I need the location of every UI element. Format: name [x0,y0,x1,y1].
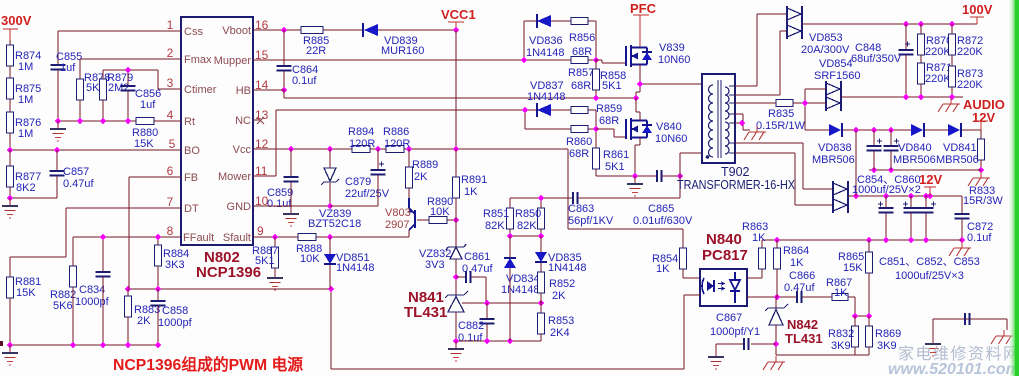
diode VD835 [540,236,542,252]
svg-text:15K: 15K [843,262,863,274]
wire pin8 FFault [73,237,181,266]
svg-text:1: 1 [167,18,174,32]
wire pin11 Mower gate drive [253,110,596,176]
svg-text:1N4148: 1N4148 [501,284,540,296]
svg-text:1uf: 1uf [140,99,156,111]
svg-text:220K: 220K [957,46,983,58]
shunt reg N841 TL431 [445,291,468,298]
svg-text:C857: C857 [63,166,89,178]
svg-text:C863: C863 [568,203,594,215]
svg-text:8: 8 [167,224,174,238]
svg-text:V840: V840 [656,121,682,133]
svg-text:R853: R853 [548,315,574,327]
wire VCC1 vertical [455,30,457,149]
svg-text:R852: R852 [549,278,575,290]
svg-text:2M2: 2M2 [108,82,129,94]
capacitor C853 [925,196,927,208]
svg-text:C858: C858 [162,305,188,317]
svg-text:0.47uf: 0.47uf [784,282,816,294]
svg-text:12V: 12V [919,172,942,187]
wire half-bridge to transformer [636,65,704,99]
svg-text:NCP1396: NCP1396 [196,264,261,281]
svg-text:1N4148: 1N4148 [548,262,587,274]
svg-text:V803: V803 [385,207,411,219]
transformer T902 [702,74,735,163]
svg-text:15R/3W: 15R/3W [963,195,1003,207]
resistor R885 [301,27,323,34]
wire ground rail bottom left [10,344,158,346]
wire TL431 anode rail [456,340,541,342]
wire bottom sense [776,354,869,356]
zener VZ839 [329,149,331,168]
svg-text:TRANSFORMER-16-HX: TRANSFORMER-16-HX [677,178,796,192]
svg-text:Vcc: Vcc [233,144,252,156]
chassis ground N842 [763,356,785,370]
svg-text:VD838: VD838 [818,142,852,154]
svg-text:120R: 120R [349,138,375,150]
resistor R888 [298,234,316,241]
wire pin14 HB half-bridge node [253,90,635,98]
node 12V terminal bar [974,120,988,122]
wire pin10 GND [253,205,330,207]
svg-text:R869: R869 [875,328,901,340]
capacitor C867 [716,344,776,350]
resistor R874 [7,45,14,66]
resistor R853 [540,303,542,313]
svg-text:2K: 2K [414,171,428,183]
capacitor C872 [955,214,970,219]
wire pin4 Rt rail [58,120,181,122]
svg-text:12V: 12V [972,110,995,125]
ground [708,349,724,369]
capacitor C863 [573,192,578,204]
diode VD853 dual rectifier [787,8,801,37]
svg-text:BO: BO [184,145,200,157]
svg-text:0.15R/1W: 0.15R/1W [756,120,806,132]
resistor R887 [274,237,276,247]
resistor R870 [920,24,922,34]
svg-text:2: 2 [167,46,174,60]
resistor R854 [682,229,684,248]
svg-text:V839: V839 [659,42,685,54]
diode VD841 [948,124,960,136]
svg-text:www.520101.com: www.520101.com [888,361,1019,376]
svg-text:5K1: 5K1 [605,161,625,173]
resistor R894 [352,146,370,153]
resistor R859 [571,107,588,114]
wire emitter / ref node [747,297,855,316]
svg-text:VD853: VD853 [809,32,843,44]
wire pin2 Fmax [80,58,181,60]
svg-text:R889: R889 [412,159,438,171]
svg-text:NC: NC [235,115,251,127]
capacitor C834 [102,237,104,272]
svg-text:R886: R886 [383,126,409,138]
svg-text:FFault: FFault [183,232,214,244]
capacitor C852 [910,196,912,208]
svg-text:5K6: 5K6 [53,300,73,312]
resistor R861 [593,148,600,169]
svg-text:1000pf: 1000pf [158,317,193,329]
transistor Q V840 MOSFET [626,118,652,140]
green border stripe right edge [1008,0,1016,376]
resistor R851 [509,198,511,208]
wire [9,40,11,45]
diode VD851 [329,237,331,254]
wire 12V-B rail [848,196,962,214]
svg-text:R859: R859 [596,103,622,115]
resistor R876 [7,112,14,133]
svg-text:7: 7 [167,195,174,209]
wire pin5 BO net [10,133,181,150]
svg-text:8K2: 8K2 [16,182,36,194]
diode VD840 [911,124,923,136]
wire divider bottom [510,235,541,237]
capacitor C879 [377,149,379,170]
junction [7,147,14,154]
resistor R878 [79,59,81,79]
svg-text:Rt: Rt [184,116,195,128]
svg-text:68R: 68R [569,148,589,160]
svg-text:VD841: VD841 [943,142,977,154]
resistor R877 [9,150,11,166]
diode dual rectifier 12V [833,183,847,211]
svg-text:0.1uf: 0.1uf [458,332,483,344]
svg-text:68R: 68R [571,80,591,92]
svg-text:1K: 1K [834,287,848,299]
svg-text:10N60: 10N60 [658,54,690,66]
resistor R883 [127,289,129,296]
wire pin1 Css [58,30,181,32]
wire pin13 NC stub [253,119,260,121]
resistor R835 current sense [735,102,776,104]
resistor R863 [761,240,763,248]
svg-text:Sfault: Sfault [223,232,251,244]
capacitor C857 [56,150,58,171]
svg-text:Css: Css [184,26,203,38]
wire pin9 Sfault [253,236,409,238]
svg-text:1uf: 1uf [60,62,76,74]
svg-text:R894: R894 [348,126,374,138]
resistor R852 [540,263,542,272]
capacitor C848 [905,24,907,50]
resistor R867 [832,294,848,301]
svg-text:5K1: 5K1 [255,255,275,267]
svg-text:22R: 22R [306,45,326,57]
svg-text:R857: R857 [568,67,594,79]
svg-text:68uf/350V: 68uf/350V [851,53,902,65]
svg-text:SRF1560: SRF1560 [814,70,860,82]
svg-text:220K: 220K [925,46,951,58]
wire pin6 FB vertical [129,177,181,289]
diode VD836 [537,15,551,27]
svg-text:3K9: 3K9 [877,340,897,352]
resistor R872 [951,24,953,34]
capacitor C865 [657,170,662,182]
svg-text:Vboot: Vboot [222,25,251,37]
svg-text:0.01uf/630V: 0.01uf/630V [633,215,693,227]
svg-text:R864: R864 [783,245,809,257]
resistor R860 [571,126,588,133]
svg-text:C865: C865 [648,203,674,215]
svg-text:R856: R856 [569,32,595,44]
svg-text:5K1: 5K1 [602,80,622,92]
transistor V803 2907 [408,198,415,230]
svg-text:FB: FB [184,172,198,184]
svg-text:GND: GND [227,201,252,213]
wire divider mid [855,315,869,317]
svg-text:R851: R851 [483,208,509,220]
resistor R864 [776,240,778,248]
resistor R882 [70,266,77,287]
capacitor C864 [283,30,285,66]
ground [925,336,941,356]
wire lower secondary taps [735,143,833,189]
svg-text:HB: HB [236,85,251,97]
wire pin15 Mupper gate drive [253,21,596,60]
svg-text:10K: 10K [430,206,450,218]
svg-text:1000pf: 1000pf [75,296,110,308]
svg-text:C882: C882 [458,320,484,332]
svg-text:120R: 120R [384,138,410,150]
ground [267,270,283,290]
wire V840 source to return [635,138,640,177]
svg-text:3K3: 3K3 [165,259,185,271]
wire rail link [855,130,857,196]
chassis ground audio [938,98,960,112]
svg-text:1N4148: 1N4148 [527,91,566,103]
wire transformer center taps to chassis [735,114,750,130]
svg-text:VD836: VD836 [529,35,563,47]
svg-text:R835: R835 [768,108,794,120]
svg-text:22uf/25V: 22uf/25V [345,188,390,200]
svg-text:TL431: TL431 [404,304,447,321]
wire gate V839 [596,60,626,63]
capacitor C858 [157,289,159,301]
wire audio rail [843,96,963,98]
svg-text:10K: 10K [300,253,320,265]
svg-text:C851、C852、C853: C851、C852、C853 [879,256,980,268]
wire [10,187,57,198]
svg-text:N840: N840 [706,231,742,248]
ground [50,121,66,141]
no-connect X on pin 13 [257,117,264,124]
svg-text:C834: C834 [79,284,105,296]
svg-text:VCC1: VCC1 [441,7,476,22]
svg-text:Mupper: Mupper [214,55,252,67]
chassis ground C872 [949,242,971,256]
resistor R856 [571,18,588,25]
resistor R890 [429,217,447,224]
svg-text:1K: 1K [790,257,804,269]
svg-text:1000pf/Y1: 1000pf/Y1 [710,326,760,338]
svg-text:2K: 2K [552,290,566,302]
svg-text:VD840: VD840 [898,142,932,154]
svg-text:0.47uf: 0.47uf [63,178,95,190]
svg-text:100V: 100V [962,2,993,17]
resistor R875 [7,78,14,99]
svg-text:PFC: PFC [630,1,657,16]
svg-text:C866: C866 [789,270,815,282]
svg-text:0.47uf: 0.47uf [462,263,494,275]
border mark left edge [0,341,3,346]
svg-text:9: 9 [257,224,264,238]
ground [2,345,18,365]
svg-text:MBR506: MBR506 [936,154,979,166]
svg-text:TL431: TL431 [785,331,823,346]
wire pin16 Vboot [253,29,456,31]
svg-text:3K9: 3K9 [831,340,851,352]
optocoupler N840 PC817 [700,269,747,306]
svg-text:VD854: VD854 [819,58,853,70]
ground [2,198,18,218]
wire pin3 Ctimer [103,70,181,89]
diode VD839 [364,24,378,36]
capacitor C851 [885,196,887,208]
resistor R869 [866,326,873,347]
wire secondary tap2 [735,31,787,95]
svg-text:R860: R860 [566,136,592,148]
wire TL431 ref [462,302,541,304]
svg-text:1K: 1K [656,263,670,275]
svg-text:R891: R891 [461,174,487,186]
wire secondary tap1 [735,14,787,86]
resistor R858 [595,60,597,69]
capacitor snubber Y [933,319,1007,337]
svg-text:C867: C867 [716,312,742,324]
svg-text:R832: R832 [828,328,854,340]
wire pin12 Vcc rail [253,149,568,199]
svg-text:2K4: 2K4 [550,327,570,339]
svg-text:0.1uf: 0.1uf [292,75,317,87]
wire FB to optocoupler [331,289,684,369]
capacitor C855 [57,31,59,65]
svg-text:1000uf/25V×2: 1000uf/25V×2 [852,184,921,196]
svg-text:4: 4 [167,108,174,122]
resistor R881 [7,277,14,298]
resistor R889 [408,149,410,167]
svg-text:5: 5 [169,137,176,151]
svg-text:C879: C879 [345,176,371,188]
diode VD838 [829,124,841,136]
svg-text:2K: 2K [137,315,151,327]
resistor R891 [455,149,457,177]
svg-text:1M: 1M [18,61,33,73]
resistor R871 [920,55,922,63]
op-amp U1: controller IC N802 NCP1396 box [181,17,253,245]
capacitor C854 [873,130,875,146]
svg-text:56pf/1KV: 56pf/1KV [568,215,614,227]
svg-text:Ctimer: Ctimer [184,84,217,96]
chassis ground secondary [744,126,766,140]
svg-text:MUR160: MUR160 [381,45,424,57]
wire [9,99,11,112]
diode VD854 dual SRF1560 [826,83,840,109]
ground [283,206,299,226]
capacitor C859 [290,149,292,177]
capacitor C856 [127,70,129,86]
resistor R857 [571,57,588,64]
shunt reg N842 TL431 [775,297,777,308]
svg-text:1K: 1K [752,232,766,244]
wire pin7 DT [10,208,181,277]
svg-text:MBR506: MBR506 [893,154,936,166]
svg-text:R850: R850 [515,208,541,220]
resistor R833 [978,139,985,160]
wire V840 drain to HB [636,98,640,121]
svg-text:6: 6 [167,164,174,178]
transistor Q V839 MOSFET [626,45,652,67]
ground [627,176,643,196]
wire R854 feed [568,199,683,229]
svg-text:68R: 68R [599,115,619,127]
capacitor C882 [486,303,488,319]
chassis ground R833 [968,172,990,186]
svg-text:0.1uf: 0.1uf [267,198,292,210]
diode VD837 [537,104,551,116]
svg-text:1M: 1M [18,128,33,140]
resistor R850 [540,198,542,208]
svg-text:1M: 1M [18,94,33,106]
wire [9,66,11,78]
svg-text:10N60: 10N60 [655,133,687,145]
wire mid rail [869,169,981,171]
svg-text:3V3: 3V3 [425,259,445,271]
svg-text:C861: C861 [464,251,490,263]
svg-text:PC817: PC817 [702,247,748,264]
resistor R884 [157,237,159,245]
wire schottky rail [842,130,981,139]
resistor R880 [136,118,154,125]
svg-text:R861: R861 [603,149,629,161]
svg-text:82K: 82K [517,220,537,232]
svg-text:1000uf/25V×3: 1000uf/25V×3 [895,270,964,282]
wire FB lower net [128,288,331,290]
svg-text:1N4148: 1N4148 [336,262,375,274]
svg-text:3: 3 [167,76,174,90]
svg-text:Mower: Mower [218,171,251,183]
wire source return rail [596,175,680,177]
svg-text:MBR506: MBR506 [812,154,855,166]
svg-text:2907: 2907 [385,219,409,231]
svg-text:300V: 300V [1,13,32,28]
wire optocoupler cathode to FB [684,295,700,369]
svg-text:220K: 220K [925,73,951,85]
svg-text:BZT52C18: BZT52C18 [308,218,361,230]
svg-text:DT: DT [184,203,199,215]
svg-text:82K: 82K [485,220,505,232]
capacitor C866 [797,291,802,303]
resistor R832 [852,326,859,347]
svg-text:15K: 15K [134,138,154,150]
resistor R886 [386,146,404,153]
resistor R879 [102,70,104,79]
ground [448,341,464,361]
resistor R865 [868,240,870,252]
svg-text:Fmax: Fmax [184,54,212,66]
wire divider top [510,197,573,199]
svg-text:T902: T902 [721,165,750,179]
svg-text:1N4148: 1N4148 [526,47,565,59]
svg-text:220K: 220K [957,79,983,91]
svg-text:1K: 1K [464,186,478,198]
svg-text:0.1uf: 0.1uf [967,232,992,244]
svg-text:20A/300V: 20A/300V [801,44,850,56]
wire 100V rail [802,23,977,25]
svg-text:15K: 15K [16,287,36,299]
wire to transformer primary bottom [680,153,704,176]
resistor R873 [951,55,953,66]
